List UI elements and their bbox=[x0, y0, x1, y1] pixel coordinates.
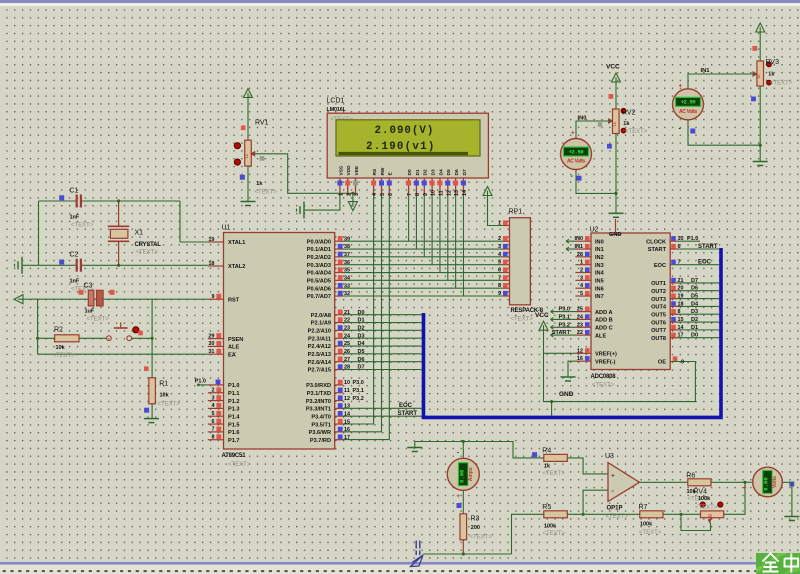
svg-text:10k: 10k bbox=[160, 393, 170, 399]
wire RV2 wiper to voltmeter, net IN0 bbox=[576, 121, 613, 139]
svg-text:D6: D6 bbox=[358, 357, 365, 363]
U1 pin 13 P3.3/INT1 bbox=[335, 407, 343, 409]
wire R7 row bbox=[583, 513, 640, 515]
wire R7 to RV4 bbox=[663, 513, 701, 515]
svg-text:24: 24 bbox=[344, 333, 351, 339]
svg-text:P3.6/WR: P3.6/WR bbox=[309, 430, 331, 436]
svg-text:D7: D7 bbox=[358, 365, 365, 371]
svg-text:<TEXT>: <TEXT> bbox=[87, 317, 110, 323]
svg-text:12: 12 bbox=[577, 348, 583, 354]
svg-text:C1: C1 bbox=[70, 188, 79, 195]
svg-text:P3.3/INT1: P3.3/INT1 bbox=[306, 407, 331, 413]
potentiometer RV3 bbox=[752, 46, 757, 51]
svg-text:VREF(-): VREF(-) bbox=[595, 359, 616, 365]
svg-text:1k: 1k bbox=[244, 154, 249, 158]
svg-text:1: 1 bbox=[580, 260, 583, 266]
svg-text:VCC: VCC bbox=[535, 312, 549, 319]
U1 pin 8 P1.7 bbox=[208, 439, 224, 441]
svg-text:CRYSTAL: CRYSTAL bbox=[135, 242, 162, 248]
svg-text:10: 10 bbox=[431, 190, 437, 196]
svg-text:<TEXT>: <TEXT> bbox=[511, 316, 534, 322]
svg-text:D4: D4 bbox=[358, 341, 366, 347]
svg-text:Amps: Amps bbox=[468, 467, 474, 481]
U2 pin 12 VREF+ wire to VCC line bbox=[544, 352, 576, 354]
potentiometer RV2 bbox=[609, 94, 614, 99]
svg-text:8: 8 bbox=[678, 309, 681, 315]
wire R5 to op-amp - input and R7 bbox=[567, 490, 608, 514]
svg-text:1k: 1k bbox=[768, 72, 775, 78]
U1 pin 32 P0.7/AD7 bbox=[335, 295, 343, 297]
svg-text:AC Volts: AC Volts bbox=[679, 109, 698, 115]
U1 pin 1 P1.0 bbox=[208, 384, 224, 386]
svg-text:D2: D2 bbox=[691, 317, 698, 323]
svg-text:GND: GND bbox=[559, 391, 574, 398]
svg-text:D1: D1 bbox=[358, 318, 365, 324]
svg-text:RV1: RV1 bbox=[255, 119, 269, 126]
svg-text:D3: D3 bbox=[358, 333, 365, 339]
ground top-left of ammeter bbox=[407, 447, 422, 449]
svg-text:D2: D2 bbox=[358, 326, 365, 332]
wire RV3 wiper to voltmeter, net IN1 bbox=[688, 74, 757, 89]
svg-text:+: + bbox=[571, 129, 575, 136]
svg-text:3: 3 bbox=[354, 193, 360, 196]
svg-text:R7: R7 bbox=[639, 504, 648, 511]
svg-text:6: 6 bbox=[678, 244, 681, 250]
svg-text:16: 16 bbox=[577, 356, 583, 362]
svg-text:D3: D3 bbox=[431, 169, 437, 175]
svg-text:P1.4: P1.4 bbox=[228, 414, 240, 420]
U1 pin 15 P3.5/T1 bbox=[335, 423, 343, 425]
U1 pin 35 P0.4/AD4 bbox=[335, 272, 343, 274]
U1 pin 25 P2.4/A12 with D4 net wire bbox=[335, 345, 343, 347]
svg-text:6: 6 bbox=[211, 419, 214, 425]
wire C1-C2 vertical bbox=[38, 201, 40, 265]
wire R6 to voltmeter and RV4 leg bbox=[711, 482, 745, 514]
wire junction dots bbox=[117, 199, 120, 202]
svg-text:2.090(V): 2.090(V) bbox=[375, 125, 435, 137]
svg-text:P1.0: P1.0 bbox=[195, 379, 206, 385]
push button reset switch bbox=[107, 336, 112, 341]
svg-text:OUT7: OUT7 bbox=[651, 328, 666, 334]
wire C2 row bbox=[22, 264, 76, 266]
svg-text:12: 12 bbox=[446, 190, 452, 196]
svg-text:P1.7: P1.7 bbox=[228, 438, 240, 444]
U2 pin 25 ADD A net P3.0 bbox=[551, 311, 576, 313]
svg-text:100k: 100k bbox=[698, 496, 711, 502]
RP1 pin 6 bbox=[503, 272, 510, 274]
svg-text:P0.3/AD3: P0.3/AD3 bbox=[307, 263, 331, 269]
svg-text:R5: R5 bbox=[542, 504, 551, 511]
U1 pin 9 RST bbox=[208, 298, 224, 300]
wire ammeter to R3 bbox=[462, 490, 464, 514]
svg-text:24: 24 bbox=[577, 314, 584, 320]
svg-text:8: 8 bbox=[211, 435, 214, 441]
svg-text:P3.4/T0: P3.4/T0 bbox=[311, 414, 331, 420]
svg-text:1k: 1k bbox=[623, 121, 630, 127]
U2 pin 18 OUT4 net D4 bbox=[670, 305, 719, 307]
wire voltmeter minus to RV2 ground leg bbox=[576, 170, 616, 194]
svg-text:<TEXT>: <TEXT> bbox=[158, 402, 181, 408]
U1 pin 27 P2.6/A14 with D6 net wire bbox=[335, 361, 343, 363]
U1 pin 6 P1.5 bbox=[208, 423, 224, 425]
svg-text:P3.1: P3.1 bbox=[353, 388, 364, 394]
svg-text:9: 9 bbox=[681, 360, 684, 366]
U1 pin 2 P1.1 bbox=[208, 392, 224, 394]
svg-text:D4: D4 bbox=[691, 301, 699, 307]
svg-text:5: 5 bbox=[580, 291, 583, 297]
svg-text:15: 15 bbox=[678, 317, 684, 323]
capacitor C1 bbox=[76, 195, 78, 208]
svg-text:+: + bbox=[456, 493, 460, 500]
svg-text:OE: OE bbox=[658, 360, 666, 366]
svg-text:+: + bbox=[743, 484, 747, 491]
svg-text:<TEXT>: <TEXT> bbox=[770, 81, 793, 87]
svg-text:ALE: ALE bbox=[595, 333, 606, 339]
U1 pin 21 P2.0/A8 with D0 net wire bbox=[335, 314, 343, 316]
U2 pin 2 IN4 bbox=[575, 272, 591, 274]
svg-text:P3.0: P3.0 bbox=[558, 307, 570, 313]
U1 pin 24 P2.3/A11 with D3 net wire bbox=[335, 337, 343, 339]
wire RP1 pin1 to VCC arrow bbox=[488, 196, 503, 226]
ground right voltmeter bbox=[784, 516, 799, 518]
svg-text:<TEXT>: <TEXT> bbox=[695, 505, 718, 511]
svg-text:EOC: EOC bbox=[698, 260, 712, 266]
resistor R3 bbox=[460, 514, 467, 540]
wire bottom rail bbox=[423, 553, 512, 555]
potentiometer RV4 horizontal bbox=[700, 502, 705, 507]
wire voltmeter minus to RV3 ground leg bbox=[688, 120, 760, 145]
svg-text:U1: U1 bbox=[222, 224, 231, 231]
wire vertical left reset bbox=[37, 299, 39, 354]
svg-text:1k: 1k bbox=[756, 75, 761, 79]
svg-text:<TEXT>: <TEXT> bbox=[71, 223, 94, 229]
U2 pin 7 EOC wire bbox=[670, 264, 719, 266]
ground left of C2 bbox=[21, 257, 23, 274]
U2 pin 21 OUT1 net D7 bbox=[670, 282, 719, 284]
RP1 pin 2 bbox=[503, 240, 510, 242]
ammeter bbox=[462, 442, 464, 459]
svg-text:START: START bbox=[698, 244, 718, 250]
svg-text:6: 6 bbox=[498, 268, 501, 274]
capacitor C3 on RST wire bbox=[88, 290, 94, 306]
U2 pin 20 OUT2 net D6 bbox=[670, 290, 719, 292]
svg-text:P1.3: P1.3 bbox=[228, 407, 240, 413]
RP1 pin 3 bbox=[503, 248, 510, 250]
U1 pin 38 P0.1/AD1 bbox=[335, 248, 343, 250]
svg-text:P3.1/TXD: P3.1/TXD bbox=[307, 391, 331, 397]
svg-text:<TEXT>: <TEXT> bbox=[470, 535, 493, 541]
svg-text:OUT2: OUT2 bbox=[651, 289, 666, 295]
wires U1 P0 to RP1 rows bbox=[343, 240, 503, 242]
svg-text:1k: 1k bbox=[256, 181, 263, 187]
power arrow VCC above RP1 pin1 bbox=[483, 187, 492, 196]
svg-text:RV3: RV3 bbox=[766, 59, 780, 66]
wire voltmeter to ground bbox=[783, 482, 792, 516]
svg-text:16: 16 bbox=[344, 427, 350, 433]
svg-text:R1: R1 bbox=[159, 380, 168, 387]
svg-text:21: 21 bbox=[678, 278, 684, 284]
svg-text:P2.2/A10: P2.2/A10 bbox=[308, 329, 331, 335]
svg-text:0.00: 0.00 bbox=[763, 477, 770, 491]
svg-text:2.190(v1): 2.190(v1) bbox=[366, 141, 436, 153]
wire START net from U1 pin 14 bbox=[343, 415, 422, 417]
svg-text:<TEXT>: <TEXT> bbox=[625, 129, 648, 135]
svg-text:D4: D4 bbox=[438, 169, 444, 175]
svg-text:IN1: IN1 bbox=[574, 244, 583, 250]
svg-text:+: + bbox=[678, 83, 682, 90]
svg-text:U2: U2 bbox=[590, 226, 599, 233]
svg-text:19: 19 bbox=[208, 237, 214, 243]
svg-text:25: 25 bbox=[344, 341, 350, 347]
resistor R6 bbox=[688, 479, 711, 486]
svg-text:OUT5: OUT5 bbox=[651, 312, 666, 318]
wire RV4 wiper loop bbox=[681, 514, 711, 530]
ground under RV2 bbox=[609, 212, 624, 214]
svg-text:15: 15 bbox=[344, 419, 350, 425]
RP1 pin 5 bbox=[503, 264, 510, 266]
svg-text:ADD A: ADD A bbox=[595, 310, 613, 316]
svg-text:VSS: VSS bbox=[338, 165, 344, 175]
svg-text:D5: D5 bbox=[691, 294, 698, 300]
U2 pin 8 OUT5 net D3 bbox=[670, 313, 719, 315]
U1 pin 14 P3.4/T0 bbox=[335, 415, 343, 417]
svg-text:14: 14 bbox=[678, 325, 684, 331]
wire RST row bbox=[23, 298, 208, 300]
svg-text:EA: EA bbox=[228, 352, 236, 358]
U1 pin 30 ALE bbox=[208, 345, 224, 347]
svg-text:21: 21 bbox=[344, 310, 350, 316]
wire RV1 wiper to LCD VEE bbox=[255, 154, 353, 194]
U1 pin 16 P3.6/WR bbox=[335, 431, 343, 433]
svg-text:P3.0/RXD: P3.0/RXD bbox=[306, 383, 331, 389]
svg-text:5: 5 bbox=[211, 411, 214, 417]
svg-text:P1.0: P1.0 bbox=[228, 383, 240, 389]
svg-text:P2.0/A8: P2.0/A8 bbox=[311, 313, 331, 319]
svg-text:P0.1/AD1: P0.1/AD1 bbox=[307, 247, 331, 253]
svg-text:7: 7 bbox=[678, 260, 681, 266]
U1 pin 12 P3.2/INT0 bbox=[335, 400, 343, 402]
U2 pin 3 IN5 bbox=[575, 279, 591, 281]
svg-text:P3.5/T1: P3.5/T1 bbox=[311, 422, 331, 428]
svg-text:P2.1/A9: P2.1/A9 bbox=[311, 321, 331, 327]
U2 pin 16 VREF- wire to ground bbox=[568, 361, 575, 376]
U1 pin 36 P0.3/AD3 bbox=[335, 264, 343, 266]
svg-text:18: 18 bbox=[678, 301, 684, 307]
U1 pin 23 P2.2/A10 with D2 net wire bbox=[335, 329, 343, 331]
svg-text:<TEXT>: <TEXT> bbox=[592, 383, 615, 389]
svg-text:RP1: RP1 bbox=[509, 209, 523, 216]
U1 pin 7 P1.6 bbox=[208, 431, 224, 433]
U1 pin 17 P3.7/RD bbox=[335, 439, 343, 441]
svg-text:3: 3 bbox=[580, 275, 583, 281]
svg-text:D0: D0 bbox=[358, 310, 365, 316]
svg-text:D2: D2 bbox=[423, 169, 429, 175]
svg-text:<TEXT>: <TEXT> bbox=[543, 531, 566, 537]
svg-text:19: 19 bbox=[678, 294, 684, 300]
svg-text:D1: D1 bbox=[415, 169, 421, 175]
U1 pin 11 P3.1/TXD bbox=[335, 392, 343, 394]
svg-text:P1.1: P1.1 bbox=[228, 391, 240, 397]
svg-text:8: 8 bbox=[498, 283, 501, 289]
svg-text:OUT1: OUT1 bbox=[651, 281, 666, 287]
svg-text:31: 31 bbox=[208, 349, 214, 355]
svg-text:+: + bbox=[611, 472, 615, 479]
wire ground to ammeter and R4 bbox=[415, 442, 544, 458]
svg-text:7: 7 bbox=[498, 275, 501, 281]
svg-text:11: 11 bbox=[439, 190, 445, 196]
svg-text:<TEXT>: <TEXT> bbox=[228, 462, 251, 468]
svg-text:D5: D5 bbox=[446, 169, 452, 175]
resistor R5 bbox=[544, 511, 568, 518]
svg-text:P1.5: P1.5 bbox=[228, 422, 240, 428]
svg-text:C2: C2 bbox=[70, 252, 79, 259]
U1 pin 39 P0.0/AD0 bbox=[335, 240, 343, 242]
wires LCD D0-D7 down to P0 rows bbox=[408, 195, 410, 241]
svg-text:28: 28 bbox=[344, 365, 350, 371]
svg-text:Volts: Volts bbox=[772, 476, 778, 488]
svg-text:PSEN: PSEN bbox=[228, 337, 243, 343]
input terminal arrow bottom-left bbox=[416, 541, 420, 556]
svg-text:0.00: 0.00 bbox=[458, 469, 465, 483]
svg-text:IN1: IN1 bbox=[701, 68, 711, 74]
U1 pin 10 P3.0/RXD bbox=[335, 384, 343, 386]
svg-text:P3.7/RD: P3.7/RD bbox=[310, 438, 331, 444]
svg-text:3: 3 bbox=[211, 395, 214, 401]
svg-text:18: 18 bbox=[208, 261, 214, 267]
svg-text:10: 10 bbox=[344, 380, 350, 386]
svg-text:P2.7/A15: P2.7/A15 bbox=[308, 368, 331, 374]
svg-text:AT89C51: AT89C51 bbox=[222, 453, 247, 459]
svg-text:C3: C3 bbox=[84, 282, 93, 289]
svg-text:17: 17 bbox=[344, 435, 350, 441]
svg-text:9: 9 bbox=[498, 291, 501, 297]
svg-text:1k: 1k bbox=[612, 122, 617, 126]
svg-text:R2: R2 bbox=[54, 327, 63, 334]
svg-text:17: 17 bbox=[678, 333, 684, 339]
svg-text:D6: D6 bbox=[691, 286, 698, 292]
svg-text:P0.6/AD6: P0.6/AD6 bbox=[307, 286, 331, 292]
svg-text:IN0: IN0 bbox=[595, 239, 604, 245]
U2 pin 23 ADD C net P3.2 bbox=[551, 326, 576, 328]
RP1 pin 8 bbox=[503, 287, 510, 289]
svg-text:P1.6: P1.6 bbox=[228, 430, 240, 436]
U1 pin 4 P1.3 bbox=[208, 407, 224, 409]
svg-text:5: 5 bbox=[498, 260, 501, 266]
svg-text:D0: D0 bbox=[691, 333, 698, 339]
U2 pin 4 IN6 bbox=[575, 287, 591, 289]
svg-text:D6: D6 bbox=[454, 169, 460, 175]
svg-text:200: 200 bbox=[471, 525, 480, 531]
svg-text:27: 27 bbox=[344, 357, 350, 363]
svg-text:D1: D1 bbox=[691, 325, 698, 331]
U1 pin 18 XTAL2 bbox=[208, 265, 224, 267]
U1 pin 22 P2.1/A9 with D1 net wire bbox=[335, 322, 343, 324]
svg-text:RV2: RV2 bbox=[622, 109, 636, 116]
U1 pin 19 XTAL1 bbox=[208, 241, 224, 243]
svg-text:RST: RST bbox=[228, 297, 240, 303]
svg-text:29: 29 bbox=[208, 333, 214, 339]
bus EOC/START/data thick blue bbox=[424, 248, 722, 417]
svg-text:IN0: IN0 bbox=[574, 236, 583, 242]
svg-text:2: 2 bbox=[211, 388, 214, 394]
svg-text:X1: X1 bbox=[135, 230, 144, 237]
U2 pin 15 OUT6 net D2 bbox=[670, 321, 719, 323]
svg-text:-: - bbox=[457, 450, 459, 456]
ground under R1 bbox=[144, 418, 159, 420]
svg-text:P0.7/AD7: P0.7/AD7 bbox=[307, 294, 331, 300]
svg-text:25: 25 bbox=[577, 307, 583, 313]
power arrow above RV1 bbox=[244, 89, 253, 98]
svg-text:P2.3/A11: P2.3/A11 bbox=[308, 336, 331, 342]
wire stub to bus from VCC route bbox=[551, 402, 553, 416]
svg-text:CLOCK: CLOCK bbox=[646, 239, 666, 245]
U2 pin 27 IN1 bbox=[575, 248, 591, 250]
watermark green badge bbox=[756, 553, 800, 574]
svg-text:11: 11 bbox=[344, 388, 350, 394]
U2 pin 19 OUT3 net D5 bbox=[670, 298, 719, 300]
svg-text:OP1P: OP1P bbox=[607, 505, 623, 511]
svg-text:U3: U3 bbox=[605, 453, 614, 460]
U1 pin 26 P2.5/A13 with D5 net wire bbox=[335, 353, 343, 355]
crystal X1 bbox=[118, 201, 120, 226]
svg-text:D5: D5 bbox=[358, 349, 365, 355]
svg-text:P0.2/AD2: P0.2/AD2 bbox=[307, 255, 331, 261]
svg-text:+2.50: +2.50 bbox=[681, 99, 697, 106]
svg-text:P2.5/A13: P2.5/A13 bbox=[308, 352, 331, 358]
svg-text:ADD C: ADD C bbox=[595, 326, 613, 332]
svg-text:P2.4/A12: P2.4/A12 bbox=[308, 344, 331, 350]
svg-text:20: 20 bbox=[678, 286, 684, 292]
U1 pin 28 P2.7/A15 with D7 net wire bbox=[335, 369, 343, 371]
svg-text:OUT6: OUT6 bbox=[651, 320, 666, 326]
U1 pin 37 P0.2/AD2 bbox=[335, 256, 343, 258]
resistor R4 bbox=[532, 452, 537, 457]
potentiometer RV1 bbox=[241, 126, 246, 131]
svg-text:VEE: VEE bbox=[354, 165, 360, 175]
svg-text:START: START bbox=[552, 330, 571, 336]
svg-text:RV4: RV4 bbox=[694, 488, 708, 495]
svg-text:3: 3 bbox=[498, 244, 501, 250]
svg-text:D0: D0 bbox=[407, 169, 413, 175]
wire R4 to op-amp + input bbox=[567, 458, 608, 474]
svg-text:P1.0: P1.0 bbox=[687, 236, 698, 242]
svg-text:IN7: IN7 bbox=[595, 294, 604, 300]
resistor R7 bbox=[640, 511, 663, 518]
svg-text:XTAL1: XTAL1 bbox=[228, 240, 245, 246]
svg-text:<TEXT>: <TEXT> bbox=[255, 190, 278, 196]
svg-text:22: 22 bbox=[344, 318, 350, 324]
wire RV2 bottom to ground bbox=[615, 134, 617, 214]
svg-text:P1.2: P1.2 bbox=[228, 399, 240, 405]
svg-text:23: 23 bbox=[577, 322, 583, 328]
RP1 pin 1 bbox=[503, 225, 510, 227]
U1 pin 31 EA bbox=[208, 353, 224, 355]
wire C1 right to XTAL1 column bbox=[82, 200, 181, 202]
svg-text:IN4: IN4 bbox=[595, 271, 605, 277]
svg-text:30: 30 bbox=[208, 341, 214, 347]
U2 pin 24 ADD B net P3.1 bbox=[551, 318, 576, 320]
svg-text:IN2: IN2 bbox=[595, 255, 604, 261]
U2 GND pin stub bbox=[615, 219, 617, 233]
ground under RV3 bbox=[753, 161, 768, 163]
svg-text:VCC: VCC bbox=[606, 64, 620, 71]
svg-text:2: 2 bbox=[498, 236, 501, 242]
svg-text:VDD: VDD bbox=[346, 165, 352, 176]
svg-text:P3.2: P3.2 bbox=[353, 396, 364, 402]
svg-text:13: 13 bbox=[454, 190, 460, 196]
svg-text:100k: 100k bbox=[544, 523, 557, 529]
svg-text:P0.0/AD0: P0.0/AD0 bbox=[307, 239, 331, 245]
